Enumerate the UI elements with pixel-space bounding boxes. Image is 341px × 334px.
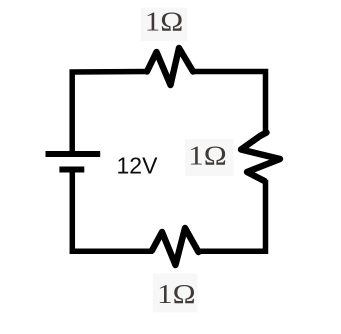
svg-text:1Ω: 1Ω <box>157 279 196 309</box>
svg-text:1Ω: 1Ω <box>145 7 184 37</box>
battery V1 positive plate (long) <box>46 151 101 157</box>
battery V1 negative plate (short) <box>59 167 84 173</box>
wire: R1 right lead across top and down right side to R2 top lead <box>192 72 266 135</box>
wire: R2 bottom lead down right side and across bottom to R3 right lead <box>198 180 266 251</box>
svg-text:1Ω: 1Ω <box>188 141 227 171</box>
label box for R1 value <box>141 8 187 42</box>
resistor R2 (right, 1Ω) <box>241 133 280 182</box>
svg-text:12V: 12V <box>117 153 159 179</box>
resistor R3 (bottom, 1Ω) <box>152 228 199 265</box>
wire: R3 left lead across bottom and up left side to battery - terminal <box>72 170 153 251</box>
wire: battery + terminal up left side and across top to R1 left lead <box>72 72 148 155</box>
label box for R2 value <box>185 139 234 176</box>
label box for R3 value <box>153 274 198 313</box>
resistor R1 (top, 1Ω) <box>147 48 193 85</box>
